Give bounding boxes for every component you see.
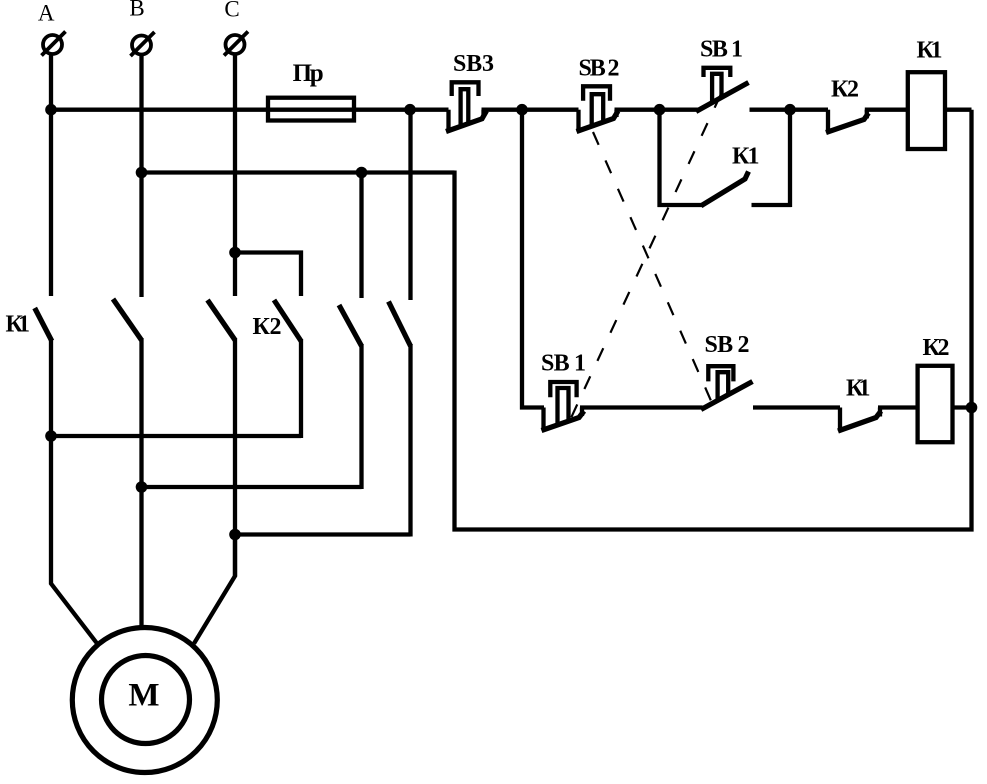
wire C jog to pole4 [235,253,301,297]
contact K1 pole1 [35,308,52,437]
contact K1 pole2 [113,299,142,628]
terminal C [224,32,248,56]
node bus at A [45,104,57,116]
svg-text:Пр: Пр [293,60,324,87]
wire A to motor [51,435,99,646]
contact K2 NC interlock (top rung) [826,110,869,133]
wire pole6 feed drop [408,110,412,300]
contact K1 NC interlock (bottom rung) [838,408,881,432]
node rail A [45,430,57,442]
contact K2 pole2 [339,170,362,489]
coil K2 [918,366,953,442]
wire rail B [142,485,362,489]
svg-text:SB 1: SB 1 [700,37,743,63]
node seal-in tap right [784,104,796,116]
wire second bus L2 [142,170,455,174]
terminal B [131,32,155,56]
dashed link SB1 top to SB1 bottom [571,95,721,419]
svg-text:SB3: SB3 [453,51,494,77]
svg-text:B: B [129,0,144,20]
pushbutton SB2 bottom (NO) [701,366,753,409]
svg-text:A: A [38,0,55,25]
wire SB1 bottom to SB2 bottom [580,405,703,409]
dashed link SB2 top to SB2 bottom [593,132,712,403]
node control tap [516,104,528,116]
svg-text:К2: К2 [923,335,950,361]
svg-text:C: C [224,0,239,22]
pushbutton SB1 top (NO start) [696,68,749,112]
contact K1 aux seal-in (NO) [658,107,792,207]
wire phase A drop to bus [49,54,53,296]
svg-text:SB 1: SB 1 [541,351,586,377]
pushbutton SB3 (NC stop) [446,82,487,131]
wire bus SB3 to SB2 [482,108,579,112]
motor M [72,628,217,773]
wire rail C [235,532,411,536]
contact K1 pole3 [208,300,236,577]
pushbutton SB2 top (NC) [577,86,619,131]
wire C to motor [194,533,235,644]
wire SB3-tap drop to lower rung [522,110,544,408]
svg-text:К1: К1 [6,312,31,338]
wire coil K2 to right rail [953,405,972,409]
node K2 coil return [966,402,978,414]
node bus2 at B [136,167,148,179]
wire SB1 to K2 contact [750,108,829,112]
wire coil K1 to right rail [947,108,972,112]
svg-text:К1: К1 [732,144,760,170]
wire phase C drop [233,54,237,296]
wire SB2 bottom to K1 contact [753,405,840,409]
fuse Pr [268,98,354,121]
svg-text:M: M [128,678,159,714]
node C jog [229,247,241,259]
svg-text:К2: К2 [831,76,859,102]
node bus2 at pole5 [356,167,368,179]
terminal A [42,32,66,56]
wire SB2 to SB1 [615,108,699,112]
svg-text:К1: К1 [846,376,871,402]
contact K2 pole3 [389,302,411,537]
coil K1 [908,72,945,149]
node bus at fuse output [404,104,416,116]
svg-text:К1: К1 [917,38,943,64]
wire K1 contact to coil K2 [878,405,918,409]
svg-text:SB 2: SB 2 [705,332,750,358]
wire rail A (reversing tie) [51,434,301,438]
wire return rail [455,110,972,530]
svg-text:К2: К2 [253,314,282,340]
contact K2 pole1 [274,300,301,438]
node seal-in tap left [654,104,666,116]
node rail B [136,481,148,493]
wire phase B drop [139,55,143,298]
wire K2 contact to coil K1 [865,108,906,112]
wire top bus L1 [49,108,449,112]
node rail C [229,529,241,541]
pushbutton SB1 bottom (NC) [542,382,585,431]
svg-text:SB 2: SB 2 [579,56,620,82]
